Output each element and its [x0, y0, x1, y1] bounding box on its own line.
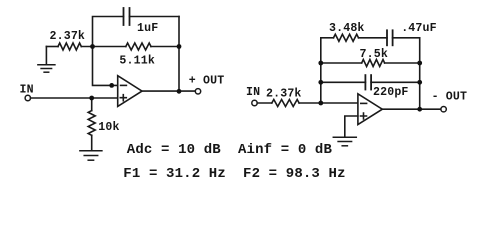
svg-text:3.48k: 3.48k	[329, 22, 365, 35]
svg-text:1uF: 1uF	[137, 22, 158, 35]
svg-text:2.37k: 2.37k	[266, 87, 302, 100]
svg-text:Adc = 10 dB Ainf = 0 dB: Adc = 10 dB Ainf = 0 dB	[127, 142, 333, 158]
svg-text:+ OUT: + OUT	[189, 75, 225, 88]
svg-text:.47uF: .47uF	[401, 22, 437, 35]
svg-text:10k: 10k	[98, 121, 119, 134]
svg-text:- OUT: - OUT	[432, 90, 468, 103]
svg-text:F1 = 31.2 Hz F2 = 98.3 Hz: F1 = 31.2 Hz F2 = 98.3 Hz	[123, 166, 345, 182]
svg-text:7.5k: 7.5k	[360, 48, 388, 61]
svg-text:2.37k: 2.37k	[50, 30, 86, 43]
svg-text:IN: IN	[20, 84, 34, 97]
svg-text:220pF: 220pF	[373, 86, 409, 99]
svg-text:IN: IN	[246, 86, 260, 99]
svg-text:5.11k: 5.11k	[119, 54, 155, 67]
